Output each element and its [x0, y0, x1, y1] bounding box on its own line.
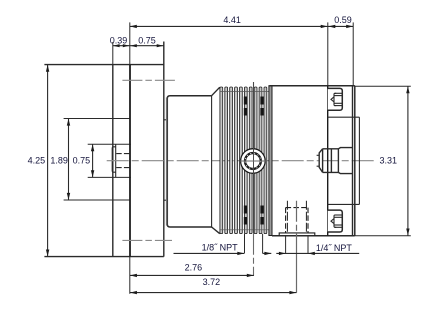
conduit plate right edge inner	[352, 86, 354, 236]
node arrow 3.72 right	[289, 291, 296, 294]
node arrow 0.75hub top	[91, 144, 94, 151]
bracket back edge	[163, 42, 165, 257]
node electrical fitting base	[338, 148, 352, 174]
wire 1.89 bottom extension line	[64, 199, 130, 201]
svg-text:0.75: 0.75	[73, 156, 91, 166]
node arrow 0.59 right	[346, 25, 353, 28]
node mounting ear top	[328, 88, 343, 110]
rear housing top edge	[270, 85, 355, 87]
wire left dimension line 4.25	[47, 65, 49, 257]
flange rear face thick	[129, 65, 131, 257]
node hub end cap	[112, 147, 116, 172]
node arrow 2.76 left	[130, 274, 137, 277]
node arrow 3.72 left	[130, 291, 137, 294]
body left edge shade	[166, 98, 168, 226]
node bracket slot tick lower	[164, 199, 168, 201]
node arrow 4.41 right	[321, 25, 328, 28]
bottom port hidden outline	[286, 208, 308, 233]
wire flange extension down to 2.76/3.72	[129, 257, 131, 294]
bottom port thread stub right	[305, 201, 307, 233]
node arrow 2.76 right	[247, 274, 254, 277]
wire extension line flange-right up	[129, 22, 131, 64]
svg-text:1.89: 1.89	[50, 156, 68, 166]
node electrical fitting thread tick upper	[317, 154, 320, 156]
svg-text:3.31: 3.31	[380, 156, 398, 166]
wire left dimension line 1.89	[68, 119, 70, 201]
bottom port centerline extension	[296, 253, 298, 292]
node ear screw bottom	[331, 215, 342, 227]
node arrow 0.75top left	[130, 44, 137, 47]
node mounting ear bottom	[328, 210, 343, 232]
node bracket slot tick upper	[164, 119, 168, 121]
body top chamfer	[212, 87, 220, 96]
node hub cap rear edge	[115, 144, 117, 177]
node electrical fitting tip	[319, 149, 322, 173]
wire 1/4 NPT leader	[276, 252, 359, 254]
conduit plate right edge outer	[354, 86, 356, 236]
wire 3.31 top extension	[355, 85, 411, 87]
wire left dimension line 0.75 hub	[92, 144, 94, 177]
node boss top edge	[328, 116, 360, 118]
wire top dimension line 4.41/0.59	[130, 25, 354, 27]
wire hidden port thread upper left	[244, 97, 247, 116]
wire 1/8 NPT extension right	[262, 234, 264, 254]
node arrow 0.75hub bottom	[91, 170, 94, 177]
svg-text:3.72: 3.72	[203, 277, 221, 287]
node ear screw top	[331, 93, 342, 105]
node arrow 4.25 bottom	[46, 250, 49, 257]
body main cylinder outline	[167, 96, 211, 227]
node arrow 1.89 bottom	[67, 193, 70, 200]
wire dimension line 3.72	[130, 292, 297, 294]
svg-text:0.75: 0.75	[138, 35, 156, 45]
bottom port thread stub left	[286, 201, 288, 233]
node arrow 0.39 right	[123, 44, 130, 47]
svg-text:0.59: 0.59	[334, 15, 352, 25]
node gauge port vertical centerline through band	[253, 88, 255, 234]
svg-text:4.41: 4.41	[223, 15, 241, 25]
wire 3.31 bottom extension	[355, 235, 411, 237]
wire mid leader segment	[263, 252, 272, 254]
node arrow 1/4 NPT left	[279, 252, 286, 255]
wire hidden port thread upper right	[260, 97, 263, 116]
svg-text:1/8˝ NPT: 1/8˝ NPT	[202, 243, 239, 253]
bottom port pad	[279, 233, 315, 236]
body shoulder at ribs	[211, 96, 213, 227]
wire 1/8 NPT extension left	[244, 234, 246, 254]
bracket bottom edge	[44, 256, 163, 258]
node upper mounting hole centerline	[122, 79, 177, 81]
node gauge port outer circle	[241, 149, 266, 174]
node boss right edge	[358, 117, 360, 204]
wire 1.89 top extension line	[64, 118, 130, 120]
node arrow 1.89 top	[67, 119, 70, 126]
node groove root line bottom	[220, 229, 269, 231]
svg-text:4.25: 4.25	[28, 156, 46, 166]
node arrow 1/8 NPT	[237, 252, 244, 255]
node main horizontal centerline	[107, 160, 374, 162]
node arrow 1/4 NPT right	[308, 252, 315, 255]
rear housing bottom edge	[272, 235, 355, 237]
node groove root line top	[220, 90, 269, 92]
node gauge port thread texture	[245, 153, 261, 169]
wire extension line 0.59 right up	[352, 22, 354, 85]
wire bottom port extension right	[307, 236, 309, 254]
wire dimension line 3.31	[407, 86, 409, 235]
wire extension line 0.59 left up	[327, 22, 329, 85]
wire second dimension line 0.39/0.75	[113, 45, 164, 47]
node lower mounting hole centerline	[122, 239, 172, 241]
node arrow 0.39 left	[113, 44, 120, 47]
bottom port hidden right side	[307, 208, 309, 233]
wire extension line flange-left up	[112, 42, 114, 65]
wire hub top extension line	[88, 143, 131, 145]
wire dimension line 2.76	[130, 274, 254, 276]
flange front face	[112, 65, 114, 257]
svg-text:2.76: 2.76	[185, 263, 203, 273]
body right edge band	[269, 86, 272, 236]
node electrical fitting thread tick lower	[317, 165, 320, 167]
node arrow at body edge	[264, 252, 271, 255]
node arrow 0.59 left	[328, 25, 335, 28]
wire hidden thread line upper in flange	[116, 153, 130, 155]
node arrow 0.75top right	[157, 44, 164, 47]
node arrow 4.41 left	[130, 25, 137, 28]
svg-text:1/4˝ NPT: 1/4˝ NPT	[316, 243, 353, 253]
wire hidden port thread lower right	[260, 206, 263, 225]
conduit plate left edge	[327, 86, 329, 236]
node gauge port horizontal centerline dash	[240, 160, 266, 162]
node boss bottom edge	[328, 203, 360, 205]
body bottom chamfer	[212, 227, 220, 234]
wire hidden thread line lower in flange	[116, 167, 130, 169]
node electrical fitting nut	[323, 149, 339, 173]
node gauge port vertical centerline stub above	[253, 82, 255, 88]
node gauge port threaded circle	[245, 153, 261, 169]
wire bottom port extension left	[285, 236, 287, 254]
wire hidden port thread lower left	[244, 206, 247, 225]
wire 1/8 NPT leader	[174, 252, 245, 254]
node gauge port vertical centerline below	[253, 234, 255, 276]
bottom port centerline	[296, 201, 298, 254]
node arrow 4.25 top	[46, 65, 49, 72]
wire hub bottom extension line	[88, 176, 131, 178]
node arrow 3.31 top	[406, 86, 409, 93]
ribbed knurl band	[220, 87, 267, 234]
bracket top edge	[44, 64, 163, 66]
node arrow 3.31 bottom	[406, 229, 409, 236]
